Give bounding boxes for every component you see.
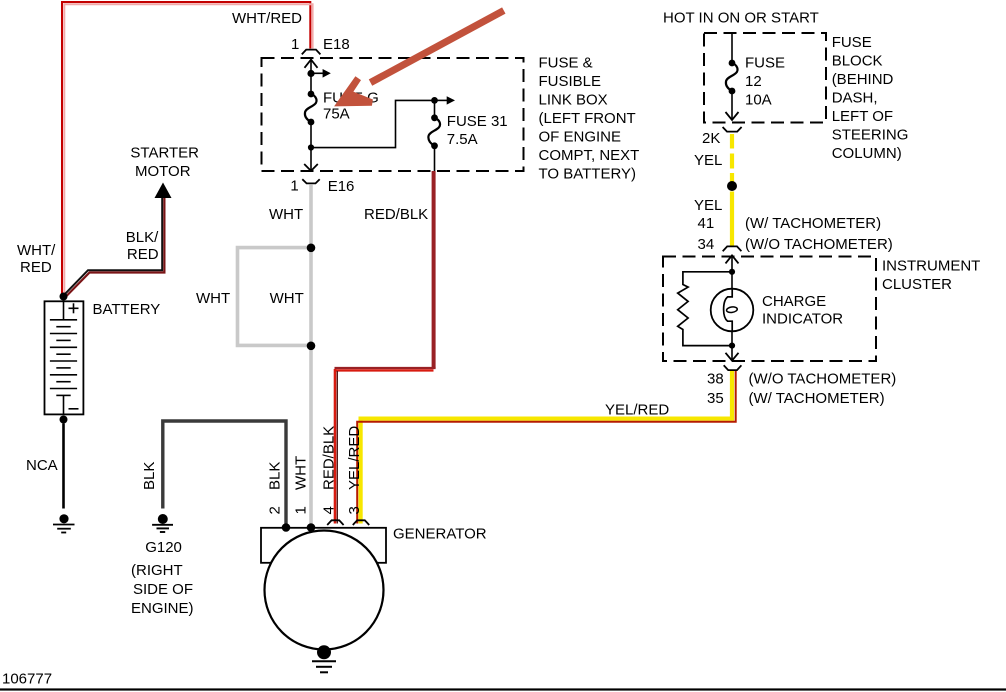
- svg-text:BATTERY: BATTERY: [93, 301, 161, 318]
- svg-text:CHARGE: CHARGE: [762, 293, 826, 310]
- junction dot at fusible link bottom: [308, 144, 314, 150]
- junction dot at fuse 31 top: [431, 97, 438, 104]
- connector E16: [290, 178, 354, 196]
- svg-text:38: 38: [707, 371, 724, 388]
- svg-text:FUSE: FUSE: [832, 34, 872, 51]
- svg-text:2K: 2K: [702, 130, 720, 147]
- svg-text:BLK: BLK: [267, 462, 284, 490]
- wire WHT/RED white stripe: [64, 4, 312, 296]
- wire BLK/RED red stripe: [66, 198, 165, 297]
- svg-text:STEERING: STEERING: [832, 127, 909, 144]
- svg-text:7.5A: 7.5A: [447, 131, 478, 148]
- down arrow above E16: [304, 164, 318, 171]
- svg-text:MOTOR: MOTOR: [135, 163, 191, 180]
- label fuse block: [832, 34, 909, 162]
- label BLK/RED: [126, 229, 159, 263]
- up arrow into cluster: [726, 255, 739, 263]
- wire YEL solid to cluster: [730, 192, 734, 247]
- svg-text:(W/ TACHOMETER): (W/ TACHOMETER): [745, 215, 881, 232]
- label G120: [131, 539, 194, 617]
- svg-text:75A: 75A: [323, 106, 350, 123]
- svg-text:41: 41: [698, 215, 715, 232]
- connector cup at cluster pins 38/35: [724, 365, 742, 370]
- svg-text:WHT/: WHT/: [17, 242, 56, 259]
- svg-text:FUSE: FUSE: [745, 55, 785, 72]
- svg-text:BLOCK: BLOCK: [832, 53, 883, 70]
- svg-text:10A: 10A: [745, 92, 772, 109]
- wire cluster vertical bottom: [731, 331, 733, 361]
- svg-text:WHT: WHT: [293, 456, 310, 490]
- branch arrow right at fuse 31: [435, 96, 456, 104]
- svg-text:ENGINE): ENGINE): [131, 600, 194, 617]
- svg-text:FUSIBLE: FUSIBLE: [539, 73, 602, 90]
- label pin 3 YEL/RED rotated: [346, 426, 363, 515]
- svg-text:(W/O TACHOMETER): (W/O TACHOMETER): [745, 236, 893, 253]
- svg-text:RED/BLK: RED/BLK: [364, 206, 428, 223]
- svg-text:106777: 106777: [2, 671, 52, 688]
- svg-text:SIDE OF: SIDE OF: [133, 581, 193, 598]
- svg-text:GENERATOR: GENERATOR: [393, 526, 487, 543]
- label charge indicator: [762, 293, 843, 328]
- wire RED/BLK pin4 dark edge: [336, 371, 338, 524]
- svg-text:1: 1: [293, 506, 310, 514]
- wire BLK/RED battery to starter (black): [64, 198, 162, 295]
- wire WHT/RED battery-to-E18 (red): [62, 2, 310, 296]
- junction dot near E18: [307, 70, 314, 77]
- svg-text:WHT: WHT: [270, 290, 304, 307]
- svg-text:TO BATTERY): TO BATTERY): [539, 166, 637, 183]
- svg-text:BLK/: BLK/: [126, 229, 159, 246]
- svg-text:RED: RED: [127, 246, 159, 263]
- annotation arrow shaft: [371, 11, 504, 83]
- svg-text:OF ENGINE: OF ENGINE: [539, 129, 622, 146]
- connector E18: [291, 36, 350, 54]
- fuse 31 7.5A: [428, 100, 507, 171]
- svg-text:G120: G120: [145, 539, 182, 556]
- svg-text:2: 2: [267, 506, 284, 514]
- junction dot cluster top: [729, 269, 735, 275]
- svg-text:FUSE 31: FUSE 31: [447, 113, 508, 130]
- label pin 4 RED/BLK rotated: [321, 426, 338, 515]
- svg-text:INDICATOR: INDICATOR: [762, 311, 843, 328]
- svg-text:INSTRUMENT: INSTRUMENT: [882, 258, 980, 275]
- svg-text:(LEFT FRONT: (LEFT FRONT: [539, 110, 636, 127]
- wire WHT main vertical E16 to generator: [309, 185, 313, 526]
- fusible link FL-G 75A: [305, 90, 379, 126]
- junction dot YEL: [727, 181, 737, 191]
- ground generator: [312, 645, 336, 672]
- pin 2 dot: [282, 523, 291, 532]
- label STARTER MOTOR: [130, 145, 199, 181]
- svg-text:DASH,: DASH,: [832, 90, 878, 107]
- svg-text:YEL: YEL: [694, 152, 722, 169]
- wire battery to NCA ground: [62, 424, 65, 509]
- ground G120: [152, 514, 173, 532]
- svg-text:(W/ TACHOMETER): (W/ TACHOMETER): [749, 390, 885, 407]
- svg-text:YEL/RED: YEL/RED: [346, 426, 363, 490]
- pin 1 dot: [307, 523, 316, 532]
- connector 2K: [702, 127, 742, 147]
- arrow to starter motor: [155, 183, 172, 199]
- label fuse & fusible link box: [539, 55, 640, 183]
- pin 3 connector hat: [353, 520, 369, 525]
- svg-text:BLK: BLK: [141, 462, 158, 490]
- svg-text:WHT/RED: WHT/RED: [232, 10, 302, 27]
- svg-text:(BEHIND: (BEHIND: [832, 71, 894, 88]
- svg-text:RED/BLK: RED/BLK: [321, 426, 338, 490]
- ground NCA: [53, 514, 75, 532]
- svg-text:YEL/RED: YEL/RED: [605, 402, 669, 419]
- junction dot WHT lower: [307, 342, 316, 351]
- wire YEL/RED cluster to generator pin 3 (yellow): [361, 371, 732, 524]
- instrument cluster box (dashed): [663, 257, 876, 362]
- wire fusible link to E16: [310, 122, 312, 171]
- svg-text:COLUMN): COLUMN): [832, 145, 902, 162]
- svg-text:3: 3: [346, 506, 363, 514]
- annotation arrow head: [334, 76, 373, 106]
- svg-text:CLUSTER: CLUSTER: [882, 276, 952, 293]
- svg-text:RED: RED: [20, 259, 52, 276]
- svg-text:WHT: WHT: [196, 290, 230, 307]
- svg-text:LINK BOX: LINK BOX: [539, 92, 608, 109]
- label WHT/RED left: [17, 242, 56, 276]
- svg-text:(RIGHT: (RIGHT: [131, 562, 183, 579]
- svg-text:(W/O TACHOMETER): (W/O TACHOMETER): [749, 371, 897, 388]
- junction dot cluster bottom: [729, 343, 735, 349]
- label pin 1 WHT rotated: [293, 456, 310, 515]
- svg-text:1: 1: [291, 36, 299, 53]
- connector hat at cluster pins 41/34: [723, 246, 742, 251]
- down arrow out of cluster: [726, 353, 739, 361]
- svg-text:COMPT, NEXT: COMPT, NEXT: [539, 147, 640, 164]
- svg-text:LEFT OF: LEFT OF: [832, 108, 893, 125]
- svg-text:E18: E18: [323, 36, 350, 53]
- wire RED/BLK pin4 vertical (red): [334, 369, 337, 524]
- wire YEL dashed fuse block to junction: [730, 134, 734, 182]
- charge indicator lamp: [711, 288, 754, 331]
- branch arrow right near E18: [311, 69, 331, 78]
- svg-text:HOT IN ON OR START: HOT IN ON OR START: [663, 10, 819, 27]
- wire RED/BLK horizontal bright core: [335, 369, 434, 371]
- wire E18 to fusible link with up arrow: [305, 60, 318, 94]
- label pin 2 BLK rotated: [267, 462, 284, 515]
- fuse 12 10A: [726, 34, 785, 120]
- resistor branch: [678, 272, 732, 346]
- wire YEL/RED red stripe: [357, 371, 736, 524]
- battery: [45, 293, 84, 424]
- bottom border line: [0, 688, 1006, 690]
- svg-text:YEL: YEL: [694, 197, 722, 214]
- svg-text:E16: E16: [328, 178, 355, 195]
- svg-text:34: 34: [698, 236, 715, 253]
- junction dot WHT upper: [307, 244, 316, 253]
- svg-text:4: 4: [321, 506, 338, 514]
- wire RED/BLK upper segment (dark red): [432, 171, 436, 368]
- svg-text:12: 12: [745, 73, 762, 90]
- svg-text:STARTER: STARTER: [130, 145, 199, 162]
- svg-text:NCA: NCA: [26, 457, 58, 474]
- wire cluster vertical top: [731, 255, 733, 289]
- fuse block box (dashed): [704, 33, 826, 123]
- svg-text:1: 1: [290, 178, 298, 195]
- fuse & fusible link box (dashed): [262, 58, 524, 171]
- label instrument cluster: [882, 258, 980, 294]
- svg-text:35: 35: [707, 390, 724, 407]
- svg-text:WHT: WHT: [269, 206, 303, 223]
- down arrow at fuse block exit: [726, 112, 739, 120]
- pin 4 connector hat: [327, 520, 343, 525]
- wire WHT C-loop: [238, 248, 312, 346]
- wire RED/BLK horizontal dark stripe: [335, 367, 436, 369]
- wire BLK G120 to generator pin 2: [163, 421, 286, 524]
- wire branch to fuse 31: [311, 100, 435, 147]
- svg-text:FUSE &: FUSE &: [539, 55, 593, 72]
- generator: [261, 528, 386, 650]
